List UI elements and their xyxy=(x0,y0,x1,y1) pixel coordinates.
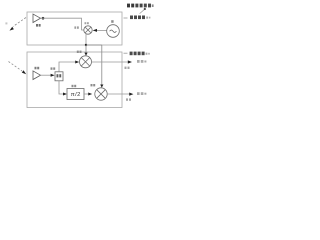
mixer M3 (Q) xyxy=(95,88,107,100)
wire pi/2 to mixer M3 with arrow xyxy=(84,93,88,95)
junction dot xyxy=(42,17,45,20)
faint mark near incoming wave xyxy=(5,22,7,24)
box (a) RF front-end xyxy=(27,12,122,45)
svg-text:π/2: π/2 xyxy=(71,92,81,98)
wire branch along y45 xyxy=(86,44,102,46)
wire down to mixer M2 with arrow xyxy=(85,45,87,53)
splitter S1 xyxy=(55,72,63,81)
incoming wave arrowhead (a) xyxy=(10,27,14,31)
I output wire and arrow xyxy=(92,61,128,63)
node splitting dot on border xyxy=(85,44,87,46)
wire splitter up to mixer M2 with arrow xyxy=(59,62,75,72)
mixer M2 (I) xyxy=(80,56,92,68)
incoming wave arrowhead (b) xyxy=(22,70,26,74)
label left-top of M2 xyxy=(77,51,82,53)
label IF output (between boxes) xyxy=(124,52,128,54)
label above G1 xyxy=(111,20,113,23)
small sub label below I xyxy=(125,67,130,69)
label under A1 xyxy=(36,24,41,27)
phase shifter U1 pi/2 xyxy=(67,89,84,100)
wire down to mixer M3 xyxy=(101,45,103,85)
small sub label below Q xyxy=(126,98,131,100)
small label left of mixer M1 xyxy=(74,26,78,28)
wire LNA to mixer (a) xyxy=(41,18,84,30)
label above S1 xyxy=(51,67,56,69)
I output label xyxy=(137,60,146,63)
Q output wire and arrow xyxy=(107,93,129,95)
box (b) quadrature demodulator xyxy=(27,52,122,108)
amplifier A2 (LNA) xyxy=(33,71,41,80)
incoming wave (a) dashed xyxy=(13,18,26,27)
annotation text top-right xyxy=(127,4,154,8)
label above M1 xyxy=(85,22,89,24)
label above U1 xyxy=(72,85,77,87)
label IF output (top) xyxy=(124,17,128,19)
wire and arrow into splitter xyxy=(41,74,51,76)
wire splitter down to phase shifter with arrow xyxy=(59,81,63,94)
annotation leader arrow xyxy=(144,8,146,10)
incoming wave (b) dashed xyxy=(9,62,23,72)
label above M3 xyxy=(91,84,96,86)
Q output label xyxy=(137,92,146,95)
label above A2 xyxy=(35,67,40,70)
IF wire down from mixer xyxy=(85,34,87,45)
LO wire with arrow into mixer xyxy=(97,30,107,32)
mixer M1 (a) xyxy=(84,26,92,34)
amplifier A1 (LNA) xyxy=(33,14,41,23)
local oscillator G1 xyxy=(107,25,120,38)
